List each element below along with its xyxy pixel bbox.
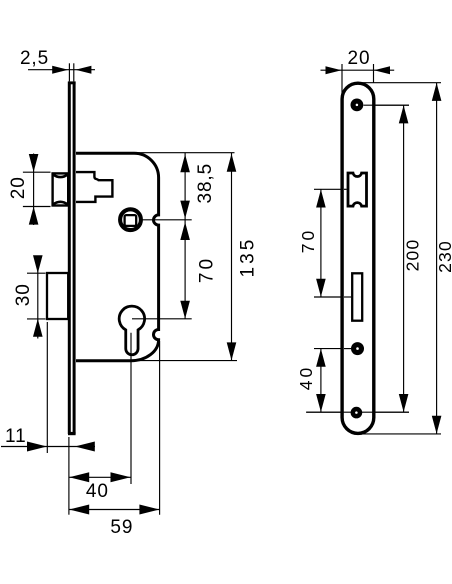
svg-text:38,5: 38,5 xyxy=(195,163,216,204)
svg-text:20: 20 xyxy=(348,48,371,69)
svg-text:2,5: 2,5 xyxy=(20,48,49,69)
svg-text:135: 135 xyxy=(238,237,259,278)
svg-text:40: 40 xyxy=(86,481,109,502)
svg-text:40: 40 xyxy=(296,365,316,390)
svg-text:230: 230 xyxy=(435,240,452,273)
svg-text:30: 30 xyxy=(13,283,34,306)
svg-text:70: 70 xyxy=(197,256,218,283)
svg-text:59: 59 xyxy=(110,517,133,538)
svg-text:70: 70 xyxy=(298,228,318,253)
svg-text:11: 11 xyxy=(5,426,27,447)
svg-text:200: 200 xyxy=(402,239,422,272)
svg-text:20: 20 xyxy=(8,176,29,199)
